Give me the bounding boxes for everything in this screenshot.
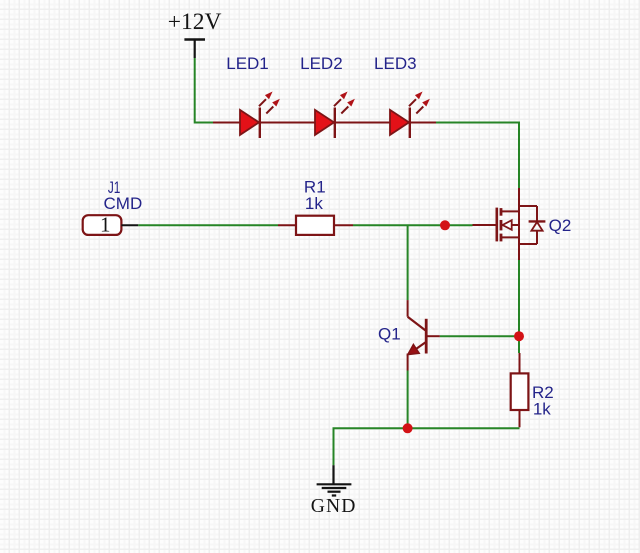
transistor Q1 xyxy=(408,300,440,370)
wire xyxy=(407,371,409,429)
wire xyxy=(407,225,409,300)
svg-text:1: 1 xyxy=(100,212,111,236)
ground xyxy=(311,465,357,517)
wire xyxy=(436,123,519,189)
LED LED2 xyxy=(315,92,355,139)
junction node xyxy=(514,331,524,341)
junction node xyxy=(403,423,413,433)
svg-text:LED2: LED2 xyxy=(300,54,343,73)
svg-text:1k: 1k xyxy=(305,194,323,213)
wire xyxy=(138,224,278,226)
svg-text:Q1: Q1 xyxy=(378,325,401,344)
svg-text:LED3: LED3 xyxy=(374,54,417,73)
connector J1 xyxy=(83,212,139,236)
resistor R2 xyxy=(511,353,529,427)
svg-text:LED1: LED1 xyxy=(226,54,269,73)
wire xyxy=(195,58,213,123)
power +12V xyxy=(168,9,222,58)
wire xyxy=(334,428,520,465)
junction node xyxy=(440,220,450,230)
svg-text:GND: GND xyxy=(311,496,357,517)
svg-text:+12V: +12V xyxy=(168,9,222,35)
wire xyxy=(440,335,519,337)
wire xyxy=(213,122,436,124)
resistor R1 xyxy=(278,216,353,235)
wire xyxy=(353,224,473,226)
transistor Q2 xyxy=(473,188,546,260)
svg-text:1k: 1k xyxy=(533,399,551,418)
LED LED3 xyxy=(390,92,430,139)
LED LED1 xyxy=(240,92,280,139)
svg-text:Q2: Q2 xyxy=(549,216,572,235)
wire xyxy=(518,260,520,353)
svg-text:CMD: CMD xyxy=(104,194,143,213)
